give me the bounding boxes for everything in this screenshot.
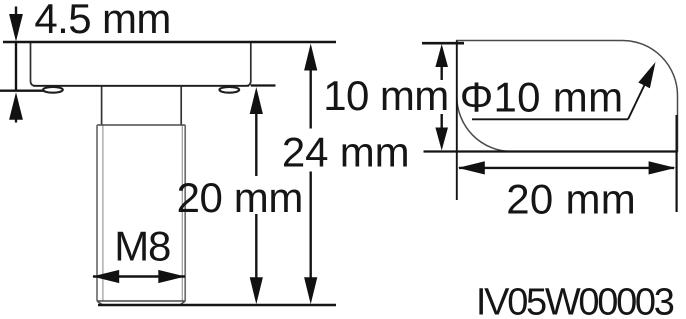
weld projection right (oval under head) [219, 87, 239, 93]
shank sides / neck [102, 86, 182, 125]
thread major diameter lines [97, 125, 185, 301]
chamfer corner right [180, 301, 186, 305]
M8 dimension line with double arrows [93, 275, 185, 277]
20mm lower arrow (points down) [250, 277, 263, 304]
bottom extension line under weld projections (4.5mm datum) [0, 89, 55, 91]
svg-text:Φ10 mm: Φ10 mm [460, 74, 623, 121]
leader underline for Φ10 mm [472, 118, 628, 120]
4.5mm upper arrow (points down) [15, 7, 17, 17]
leader arrowhead (points to rounded corner) [638, 62, 655, 88]
24mm upper arrow (points up) [304, 44, 317, 71]
head top-view outline (rounded top-right and bottom-left corners) [457, 41, 678, 152]
top tick extension line (10mm datum) [422, 42, 464, 45]
top extension line (head top, datum for 4.5mm and 24mm) [3, 41, 336, 43]
20mm dimension line (right view) [459, 167, 674, 169]
weld projection left (oval under head) [43, 87, 63, 93]
right vertical extension line (20mm datum) [675, 115, 677, 212]
thread end chamfer line [97, 300, 185, 302]
svg-text:20 mm: 20 mm [177, 174, 304, 221]
20mm right arrow (points right) [649, 161, 676, 174]
bottom extension line (10mm/20mm datum) [424, 150, 678, 152]
thread minor diameter lines [103, 125, 182, 301]
svg-text:24 mm: 24 mm [282, 129, 410, 176]
svg-text:10 mm: 10 mm [323, 72, 449, 119]
svg-text:4.5 mm: 4.5 mm [34, 0, 171, 42]
20mm left arrow (points left) [458, 161, 485, 174]
baseline extension at screw tip (24mm/20mm datum) [98, 304, 336, 306]
leader diagonal to corner radius [628, 73, 651, 120]
4.5mm lower arrow (points up) [15, 117, 17, 123]
head bottom edge (darker) [33, 85, 249, 87]
10mm dimension line [441, 64, 443, 80]
svg-text:IV05W00003: IV05W00003 [476, 282, 675, 319]
24mm lower arrow (points down) [304, 277, 317, 304]
10mm lower arrow (points down) [435, 128, 448, 151]
left vertical extension line (20mm datum) [456, 41, 458, 201]
4.5mm dimension line [15, 42, 17, 92]
screw head outline (side view) [31, 42, 251, 86]
svg-text:20 mm: 20 mm [506, 176, 636, 223]
24mm dimension line [310, 68, 312, 129]
svg-text:M8: M8 [114, 223, 171, 270]
20mm dimension line (left view) [255, 110, 257, 176]
chamfer corner left [97, 301, 103, 305]
head-bottom extension line right (20mm datum) [251, 84, 276, 86]
M8 left arrow [92, 270, 119, 283]
thread shoulder line [97, 124, 185, 126]
M8 right arrow [158, 270, 185, 283]
10mm upper arrow (points up) [435, 44, 448, 67]
20mm upper arrow (points up) [250, 87, 263, 114]
